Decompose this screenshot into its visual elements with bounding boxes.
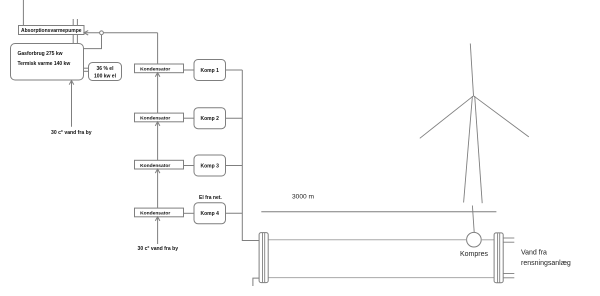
box Komp 1 bbox=[194, 60, 226, 81]
wire Komp3 to bus bbox=[226, 165, 243, 167]
box Kondensator 2 bbox=[135, 113, 184, 122]
wire double stub below pump bbox=[73, 35, 77, 44]
box Komp 2 bbox=[194, 108, 226, 129]
wire top feed bbox=[22, 0, 24, 26]
svg-text:30 c° vand fra by: 30 c° vand fra by bbox=[138, 246, 179, 252]
node junction circle bbox=[100, 31, 104, 35]
svg-text:Kompres: Kompres bbox=[460, 251, 489, 258]
svg-text:Kondensator: Kondensator bbox=[140, 116, 170, 122]
wind turbine blade right bbox=[474, 96, 529, 137]
svg-text:El fra net.: El fra net. bbox=[199, 195, 222, 201]
box Gasforbrug / Termisk varme bbox=[11, 44, 84, 81]
svg-text:30 c° vand fra by: 30 c° vand fra by bbox=[51, 130, 92, 136]
box Kondensator 1 bbox=[135, 64, 184, 73]
svg-text:Kondensator: Kondensator bbox=[140, 211, 170, 217]
wire arrow up into Kondensator 3 bbox=[155, 169, 160, 208]
wire arrow up into Kondensator 2 bbox=[155, 122, 160, 161]
pipe top left segment bbox=[268, 239, 466, 241]
box Kondensator 4 bbox=[135, 208, 184, 217]
svg-text:Komp 3: Komp 3 bbox=[201, 163, 220, 169]
svg-text:3000 m: 3000 m bbox=[292, 194, 315, 201]
svg-text:Komp 2: Komp 2 bbox=[201, 116, 220, 122]
svg-text:Komp 1: Komp 1 bbox=[201, 68, 220, 74]
wire arrow up into Kondensator 1 bbox=[155, 73, 160, 113]
pipe top right segment bbox=[481, 239, 494, 241]
wire Komp1 to bus bbox=[226, 69, 243, 71]
box 36 % el / 100 kw el bbox=[89, 63, 122, 81]
wire Kondensator4 to Komp4 bbox=[184, 212, 195, 214]
svg-text:Absorptionsvarmepumpe: Absorptionsvarmepumpe bbox=[21, 28, 82, 34]
wire hook below left flange bbox=[253, 278, 259, 286]
svg-text:rensningsanlæg: rensningsanlæg bbox=[521, 260, 571, 267]
svg-text:Kondensator: Kondensator bbox=[140, 163, 170, 169]
wind turbine blade left bbox=[420, 96, 474, 139]
compressor circle Kompres bbox=[467, 232, 482, 247]
wire Komp4 to bus bbox=[226, 212, 243, 214]
wire double stub above pump bbox=[73, 19, 77, 26]
pipe stubs right flange bottom bbox=[503, 274, 514, 278]
svg-text:Vand fra: Vand fra bbox=[521, 250, 547, 257]
svg-text:Komp 4: Komp 4 bbox=[201, 211, 220, 217]
wire komp bus to pipeline bbox=[242, 70, 259, 241]
wire Kondensator1 to Komp1 bbox=[184, 69, 195, 71]
wire Komp2 to bus bbox=[226, 117, 243, 119]
wind turbine tower bbox=[464, 96, 483, 203]
box Kondensator 3 bbox=[135, 160, 184, 169]
pipe bottom bbox=[268, 277, 494, 279]
wire double link Gasforbrug to el box bbox=[84, 68, 89, 71]
box Komp 3 bbox=[194, 155, 226, 176]
pipe stubs right flange top bbox=[503, 238, 514, 242]
svg-text:Kondensator: Kondensator bbox=[140, 67, 170, 73]
flange left bbox=[259, 233, 268, 283]
wire riser to Kondensator 1 bbox=[157, 33, 159, 64]
wire junction drop to Gasforbrug bbox=[84, 35, 102, 49]
wire top return line into pump bbox=[84, 31, 158, 35]
svg-text:Gasforbrug 275 kw: Gasforbrug 275 kw bbox=[18, 51, 63, 57]
svg-text:36 % el: 36 % el bbox=[97, 66, 115, 72]
flange right bbox=[494, 233, 503, 283]
wire turbine to compressor bbox=[472, 206, 474, 233]
svg-text:100 kw el: 100 kw el bbox=[94, 74, 117, 80]
wire Kondensator2 to Komp2 bbox=[184, 117, 195, 119]
wind turbine blade up bbox=[470, 44, 473, 96]
wire ground line 3000 m bbox=[261, 211, 496, 213]
wire arrow up into Kondensator 4 bbox=[155, 217, 160, 244]
box Komp 4 bbox=[194, 203, 226, 224]
label Vand fra rensningsanlaeg bbox=[521, 250, 571, 268]
wire Kondensator3 to Komp3 bbox=[184, 165, 195, 167]
svg-text:Termisk varme 140 kw: Termisk varme 140 kw bbox=[18, 61, 71, 67]
box Absorptionsvarmepumpe bbox=[19, 26, 85, 35]
wire arrow into Gasforbrug bottom bbox=[69, 81, 74, 127]
